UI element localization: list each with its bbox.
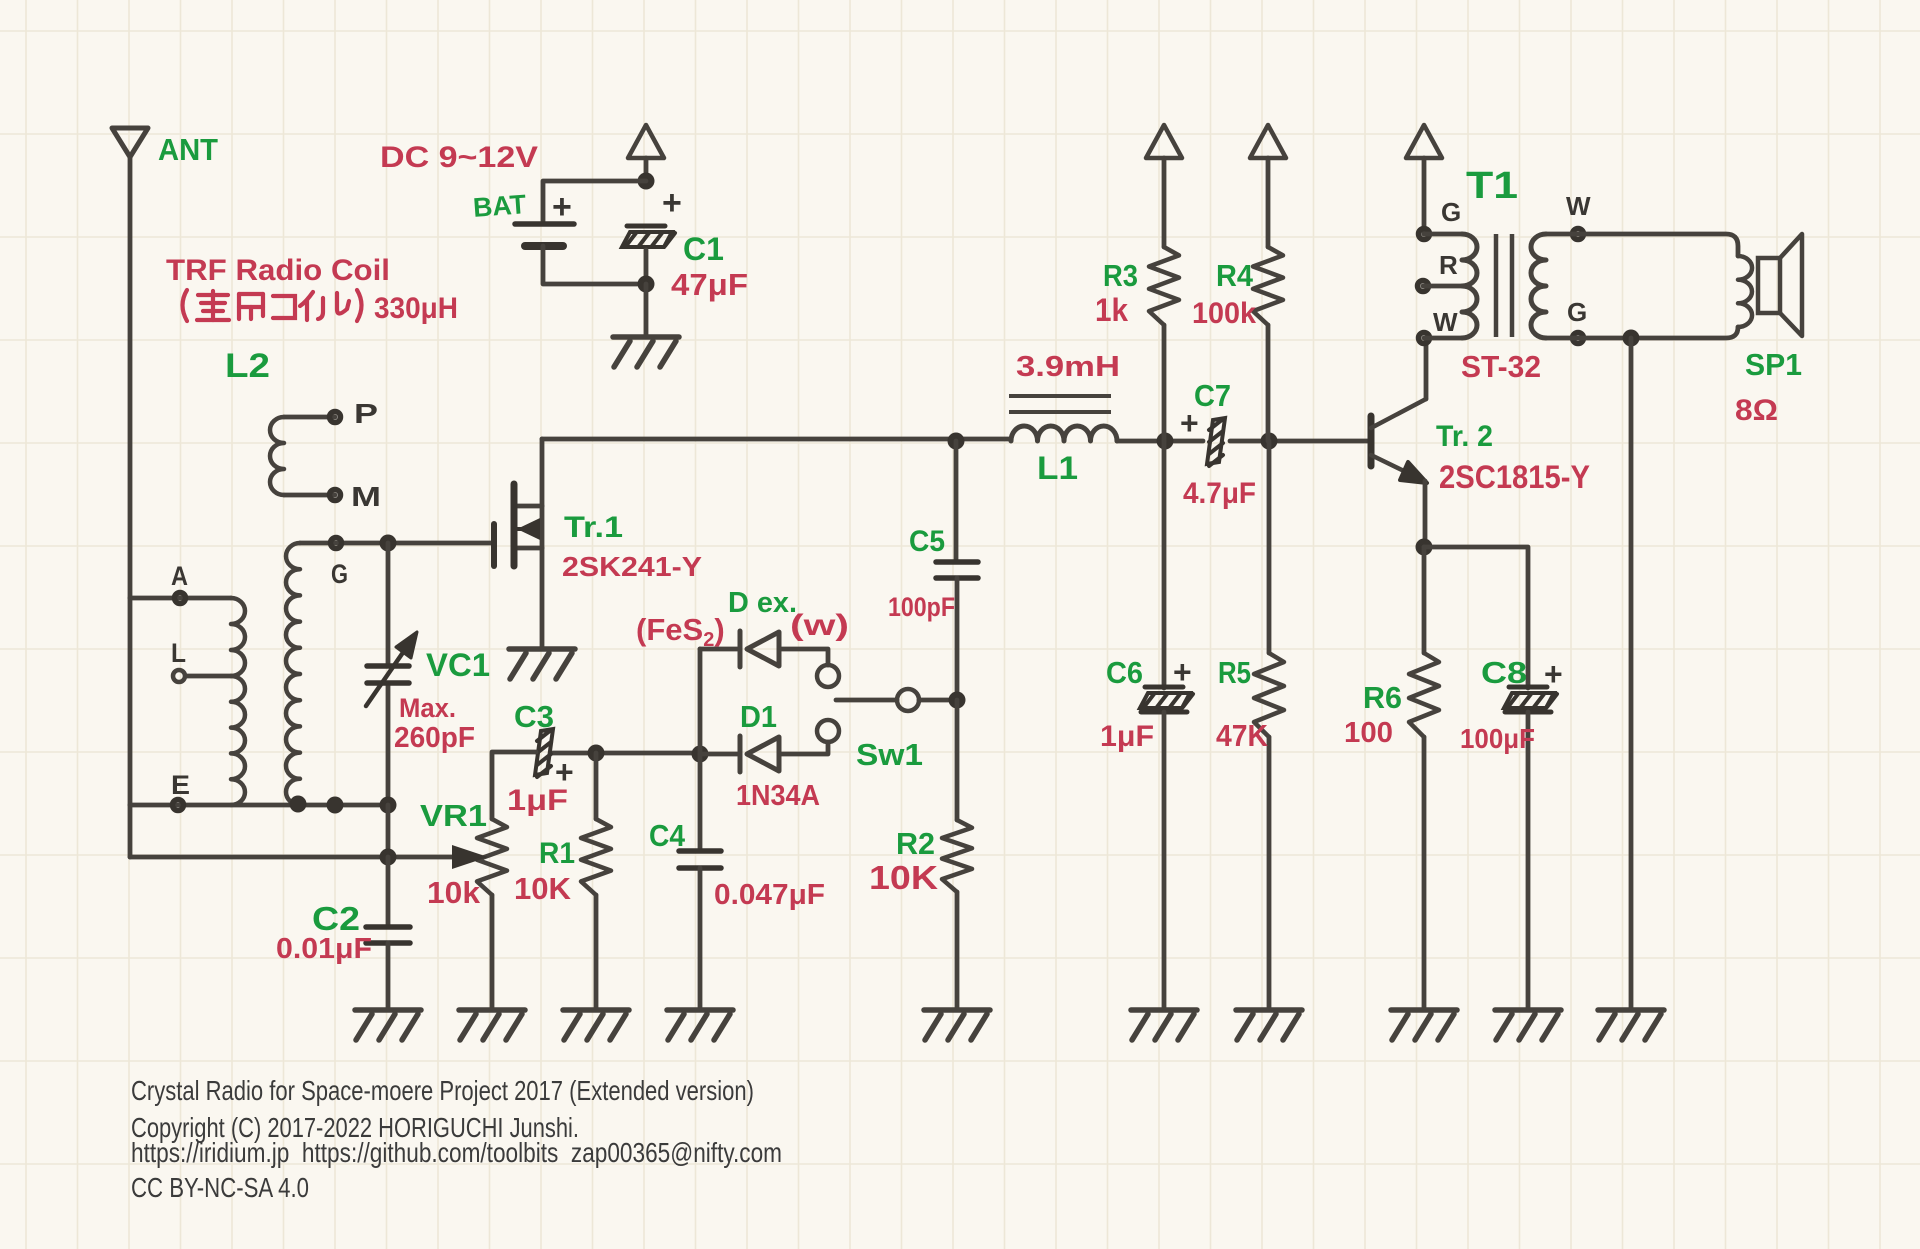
svg-text:Sw1: Sw1 xyxy=(856,737,923,772)
wire bottom row from antenna to VR1 wiper xyxy=(130,855,452,860)
antenna ANT symbol xyxy=(112,128,148,157)
svg-text:100: 100 xyxy=(1344,717,1393,749)
transformer T1 core xyxy=(1494,234,1499,337)
wire Tr1 channel vertical xyxy=(540,506,545,548)
node T1 secondary W ring xyxy=(1573,229,1584,240)
resistor R5 body xyxy=(1254,653,1284,737)
svg-text:1μF: 1μF xyxy=(1100,720,1154,753)
wire main rail L1 to C7 xyxy=(1117,439,1203,444)
wire R2 top lead xyxy=(955,700,960,820)
svg-text:+: + xyxy=(552,188,572,226)
ground below C4 xyxy=(667,1010,733,1040)
wire battery bottom to ground xyxy=(644,284,649,337)
switch Sw1 upper contact xyxy=(817,665,839,687)
wire VC1 bottom lead xyxy=(386,683,391,805)
svg-text:G: G xyxy=(1567,297,1587,327)
wire node G to Tr1 gate xyxy=(300,541,492,546)
svg-text:10K: 10K xyxy=(514,871,572,906)
svg-text:C8: C8 xyxy=(1481,655,1527,690)
ground below battery/C1 xyxy=(613,337,679,367)
svg-text:+: + xyxy=(662,184,682,222)
wire Tr2 collector up to T1 W xyxy=(1424,338,1429,399)
wire Dex branch vertical xyxy=(698,649,703,754)
capacitor C2 plates xyxy=(366,927,410,943)
wire R3 bottom to rail xyxy=(1162,325,1167,441)
wire R5 bottom to ground xyxy=(1267,737,1272,1010)
potentiometer VR1 wiper arrow xyxy=(452,845,488,869)
svg-text:1μF: 1μF xyxy=(507,784,568,817)
wire C5 bottom lead to switch junction xyxy=(955,578,960,700)
svg-text:C1: C1 xyxy=(683,231,724,267)
svg-text:G: G xyxy=(331,559,348,589)
capacitor C6 electrolytic xyxy=(1140,687,1193,712)
junction dot L2/VC1 bottom row b xyxy=(327,797,344,814)
svg-text:2SK241-Y: 2SK241-Y xyxy=(562,551,702,582)
battery BAT plates xyxy=(515,221,574,227)
svg-text:260pF: 260pF xyxy=(394,722,475,754)
node T1 primary W ring xyxy=(1419,333,1430,344)
svg-text:R5: R5 xyxy=(1218,655,1251,690)
svg-text:1N34A: 1N34A xyxy=(736,780,820,812)
inductor L1 core lines xyxy=(1009,394,1111,398)
svg-text:https://iridium.jp https://gi: https://iridium.jp https://github.com/to… xyxy=(131,1137,782,1168)
junction dot rail at R4/R5 xyxy=(1261,433,1278,450)
svg-text:R1: R1 xyxy=(539,837,575,870)
power symbol VCC above T1 xyxy=(1406,125,1442,158)
speaker SP1 voice coil xyxy=(1738,256,1752,327)
node E terminal ring xyxy=(173,800,184,811)
junction dot switch pole at C5/R2 xyxy=(949,692,966,709)
resistor R4 body xyxy=(1253,247,1283,325)
wire C3 row to D1 junction xyxy=(553,751,700,756)
junction dot R1 top xyxy=(588,745,605,762)
wire R2 bottom to ground xyxy=(955,892,960,1010)
speaker SP1 driver symbol xyxy=(1758,258,1780,313)
wire C2 top lead xyxy=(386,857,391,927)
svg-text:ST-32: ST-32 xyxy=(1461,349,1541,384)
svg-text:A: A xyxy=(171,561,188,591)
wire node E row from antenna lead to VC1 bottom xyxy=(130,803,388,808)
wire switch pole lever xyxy=(836,698,897,703)
value label (coil type in Japanese) xyxy=(183,290,362,321)
wire C5 top lead xyxy=(954,441,959,562)
svg-text:Tr.1: Tr.1 xyxy=(564,511,623,544)
diode D1 1N34A xyxy=(740,736,779,772)
wire Tr2 emitter down xyxy=(1423,481,1428,547)
wire Dex anode lead xyxy=(700,647,740,652)
ground below C6 xyxy=(1131,1010,1197,1040)
svg-text:ANT: ANT xyxy=(158,132,218,167)
potentiometer VR1 body xyxy=(477,819,507,895)
svg-text:C5: C5 xyxy=(909,525,945,558)
junction dot speaker return xyxy=(1623,330,1640,347)
ground below R1 xyxy=(563,1010,629,1040)
resistor R3 body xyxy=(1149,247,1179,325)
svg-text:4.7μF: 4.7μF xyxy=(1183,477,1256,510)
wire switch pole to C5/R2 junction xyxy=(919,698,957,703)
svg-text:VR1: VR1 xyxy=(420,798,487,833)
wire C1 bottom lead xyxy=(644,250,649,284)
wire C2 bottom lead xyxy=(386,943,391,1010)
wire speaker bottom back to T1 secondary xyxy=(1546,327,1738,338)
node T1 primary R ring xyxy=(1418,281,1429,292)
transistor Q1 Tr.1 2SK241 body xyxy=(511,484,518,566)
svg-text:+: + xyxy=(1173,654,1192,690)
svg-text:G: G xyxy=(1441,197,1461,227)
wire T1 secondary top to speaker xyxy=(1546,234,1738,256)
capacitor C5 plates xyxy=(936,562,978,578)
wire battery negative branch xyxy=(543,246,646,284)
svg-text:1k: 1k xyxy=(1095,292,1128,328)
svg-text:+: + xyxy=(1544,656,1563,692)
junction dot bottom row at x388 xyxy=(380,849,397,866)
wire Tr1 source stub xyxy=(517,546,542,551)
svg-text:C6: C6 xyxy=(1106,655,1143,690)
wire D1 to lower switch contact xyxy=(779,742,828,754)
wire R6 bottom to ground xyxy=(1422,737,1427,1010)
junction dot battery top xyxy=(638,173,655,190)
wire L2 tap P xyxy=(284,415,335,420)
svg-text:R6: R6 xyxy=(1363,680,1402,715)
wire Tr1 drain stub xyxy=(517,504,542,509)
wire T1 primary G to coil xyxy=(1424,232,1462,237)
wire emitter to R6 xyxy=(1422,547,1427,653)
junction dot VC1 bottom xyxy=(380,797,397,814)
wire emitter to C8 top xyxy=(1424,547,1528,688)
wire C4 bottom lead xyxy=(698,868,703,1010)
wire Tr1 source down to ground xyxy=(540,548,545,649)
ground below C8 xyxy=(1495,1010,1561,1040)
svg-text:C2: C2 xyxy=(312,900,360,937)
transistor Q2 Tr.2 2SC1815 body xyxy=(1368,416,1375,466)
wire T1 primary W to coil xyxy=(1424,336,1462,341)
svg-text:TRF Radio Coil: TRF Radio Coil xyxy=(166,254,390,287)
junction dot emitter/C8 xyxy=(1416,539,1433,556)
svg-text:R4: R4 xyxy=(1216,258,1254,293)
diode Dex (FeS2 detector) xyxy=(740,631,779,667)
wire C4 top lead xyxy=(698,754,703,849)
svg-text:3.9mH: 3.9mH xyxy=(1016,351,1120,383)
svg-text:R: R xyxy=(1439,250,1458,280)
svg-text:CC BY-NC-SA 4.0: CC BY-NC-SA 4.0 xyxy=(131,1172,309,1203)
node L open terminal xyxy=(173,670,185,682)
svg-text:100μF: 100μF xyxy=(1460,723,1535,754)
node T1 primary G ring xyxy=(1419,229,1430,240)
svg-text:E: E xyxy=(171,770,190,800)
power symbol VCC above R4 xyxy=(1250,125,1286,158)
wire node A row to L2 antenna winding xyxy=(130,596,231,601)
inductor L2 P-M winding xyxy=(270,417,284,495)
node T1 secondary G ring xyxy=(1573,333,1584,344)
svg-text:P: P xyxy=(354,398,378,429)
capacitor VC1 variable plates xyxy=(367,666,409,683)
svg-text:SP1: SP1 xyxy=(1745,347,1802,382)
wire R3 top lead xyxy=(1162,158,1167,247)
wire node L tap to L2 antenna winding xyxy=(186,674,231,679)
switch Sw1 lower contact xyxy=(817,720,839,742)
variable capacitor VC1 arrow xyxy=(366,651,404,706)
svg-text:C4: C4 xyxy=(649,818,686,853)
ground below C2 xyxy=(355,1010,421,1040)
wire R4 bottom to rail xyxy=(1266,325,1271,441)
svg-text:L1: L1 xyxy=(1037,450,1078,486)
wire Dex to upper switch contact xyxy=(779,649,828,665)
transformer T1 secondary winding xyxy=(1531,234,1546,338)
svg-text:VC1: VC1 xyxy=(426,647,490,683)
node G terminal ring xyxy=(331,538,342,549)
svg-text:100k: 100k xyxy=(1192,297,1256,330)
capacitor C7 electrolytic slab xyxy=(1207,418,1225,466)
svg-text:D ex.: D ex. xyxy=(728,587,797,619)
power symbol VCC above battery xyxy=(628,125,664,158)
wire battery positive branch xyxy=(543,181,646,224)
wire R1 top lead xyxy=(594,753,599,819)
svg-text:Max.: Max. xyxy=(399,693,456,723)
svg-text:D1: D1 xyxy=(740,699,777,734)
svg-text:0.047μF: 0.047μF xyxy=(714,879,825,911)
svg-text:0.01μF: 0.01μF xyxy=(276,933,372,965)
svg-text:W: W xyxy=(1433,307,1458,337)
wire speaker return to ground xyxy=(1629,338,1634,1010)
wire R5 top lead xyxy=(1267,441,1272,653)
svg-text:47μF: 47μF xyxy=(671,267,748,302)
wire main rail C7 to Tr2 base xyxy=(1230,439,1371,444)
svg-text:Tr. 2: Tr. 2 xyxy=(1436,420,1493,453)
junction dot D1/Dex/C4 xyxy=(692,746,709,763)
svg-text:T1: T1 xyxy=(1466,165,1518,207)
svg-text:L2: L2 xyxy=(225,347,270,385)
wire R4 top lead xyxy=(1266,158,1271,247)
wire VC1 bottom to bottom row xyxy=(386,805,391,857)
inductor L2 antenna coupling winding A-L-E xyxy=(231,598,245,676)
svg-text:2SC1815-Y: 2SC1815-Y xyxy=(1439,459,1590,495)
resistor R1 body xyxy=(581,819,611,895)
resistor R2 body xyxy=(942,820,972,892)
svg-text:L: L xyxy=(171,638,186,668)
wire C6 top lead xyxy=(1162,441,1167,688)
node A terminal ring xyxy=(175,593,186,604)
svg-text:100pF: 100pF xyxy=(888,592,955,622)
junction dot L2/VC1 bottom row a xyxy=(290,796,307,813)
wire main rail from Tr1 drain to L1 xyxy=(542,437,1011,442)
svg-text:BAT: BAT xyxy=(472,189,527,223)
svg-text:R2: R2 xyxy=(896,826,935,861)
wire C8 bottom lead xyxy=(1526,712,1531,1010)
svg-text:Crystal Radio for Space-moere: Crystal Radio for Space-moere Project 20… xyxy=(131,1075,754,1106)
wire antenna lead from node A down to node E row xyxy=(128,598,133,805)
svg-text:8Ω: 8Ω xyxy=(1735,394,1778,427)
node P terminal ring xyxy=(330,412,341,423)
ground below VR1 xyxy=(459,1010,525,1040)
svg-text:10k: 10k xyxy=(427,875,481,910)
svg-text:R3: R3 xyxy=(1103,258,1138,293)
wire C3 left lead and down to VR1 xyxy=(492,752,536,819)
ground at Tr1 source xyxy=(509,649,575,679)
junction dot rail at C5 xyxy=(948,433,965,450)
wire D1 anode lead xyxy=(700,752,740,757)
power symbol VCC above R3 xyxy=(1146,125,1182,158)
wire L2 tap M xyxy=(284,493,335,498)
ground below R5 xyxy=(1236,1010,1302,1040)
svg-text:M: M xyxy=(351,481,381,512)
capacitor C3 electrolytic slab xyxy=(535,729,553,777)
wire battery top rail xyxy=(644,158,649,181)
svg-text:47K: 47K xyxy=(1216,718,1269,753)
node M terminal ring xyxy=(330,490,341,501)
wire antenna lead lower segment down to bottom wire xyxy=(128,805,133,857)
resistor R6 body xyxy=(1409,653,1439,737)
capacitor C4 plates xyxy=(679,851,721,868)
capacitor C1 electrolytic xyxy=(622,226,675,247)
ground below R6 xyxy=(1391,1010,1457,1040)
wire VC1 top lead xyxy=(386,543,391,666)
junction dot rail at R3/C6 xyxy=(1157,433,1174,450)
wire VR1 bottom to ground xyxy=(490,895,495,1010)
svg-text:W: W xyxy=(1566,191,1591,221)
svg-text:C3: C3 xyxy=(514,699,554,734)
junction dot battery bottom xyxy=(638,276,655,293)
wire antenna lead down the left side xyxy=(128,157,133,598)
wire R1 bottom to ground xyxy=(594,895,599,1010)
svg-text:10K: 10K xyxy=(869,859,938,896)
wire T1 G lead from VCC xyxy=(1422,158,1427,234)
junction dot VC1 top xyxy=(380,535,397,552)
inductor L2 main tuned winding xyxy=(286,543,300,805)
wire C6 bottom lead xyxy=(1162,712,1167,1010)
capacitor C8 electrolytic xyxy=(1504,687,1557,712)
switch Sw1 pole circle xyxy=(897,689,919,711)
wire Tr1 drain to main rail corner xyxy=(540,439,545,506)
wire T1 primary R tap xyxy=(1423,284,1462,289)
ground below speaker return xyxy=(1598,1010,1664,1040)
svg-text:C7: C7 xyxy=(1194,378,1231,413)
ground below R2 xyxy=(924,1010,990,1040)
transformer T1 primary winding xyxy=(1462,234,1477,338)
svg-text:(w): (w) xyxy=(790,609,849,642)
inductor L1 coil xyxy=(1011,426,1117,441)
svg-text:330μH: 330μH xyxy=(374,292,458,325)
svg-text:DC 9~12V: DC 9~12V xyxy=(380,141,538,174)
